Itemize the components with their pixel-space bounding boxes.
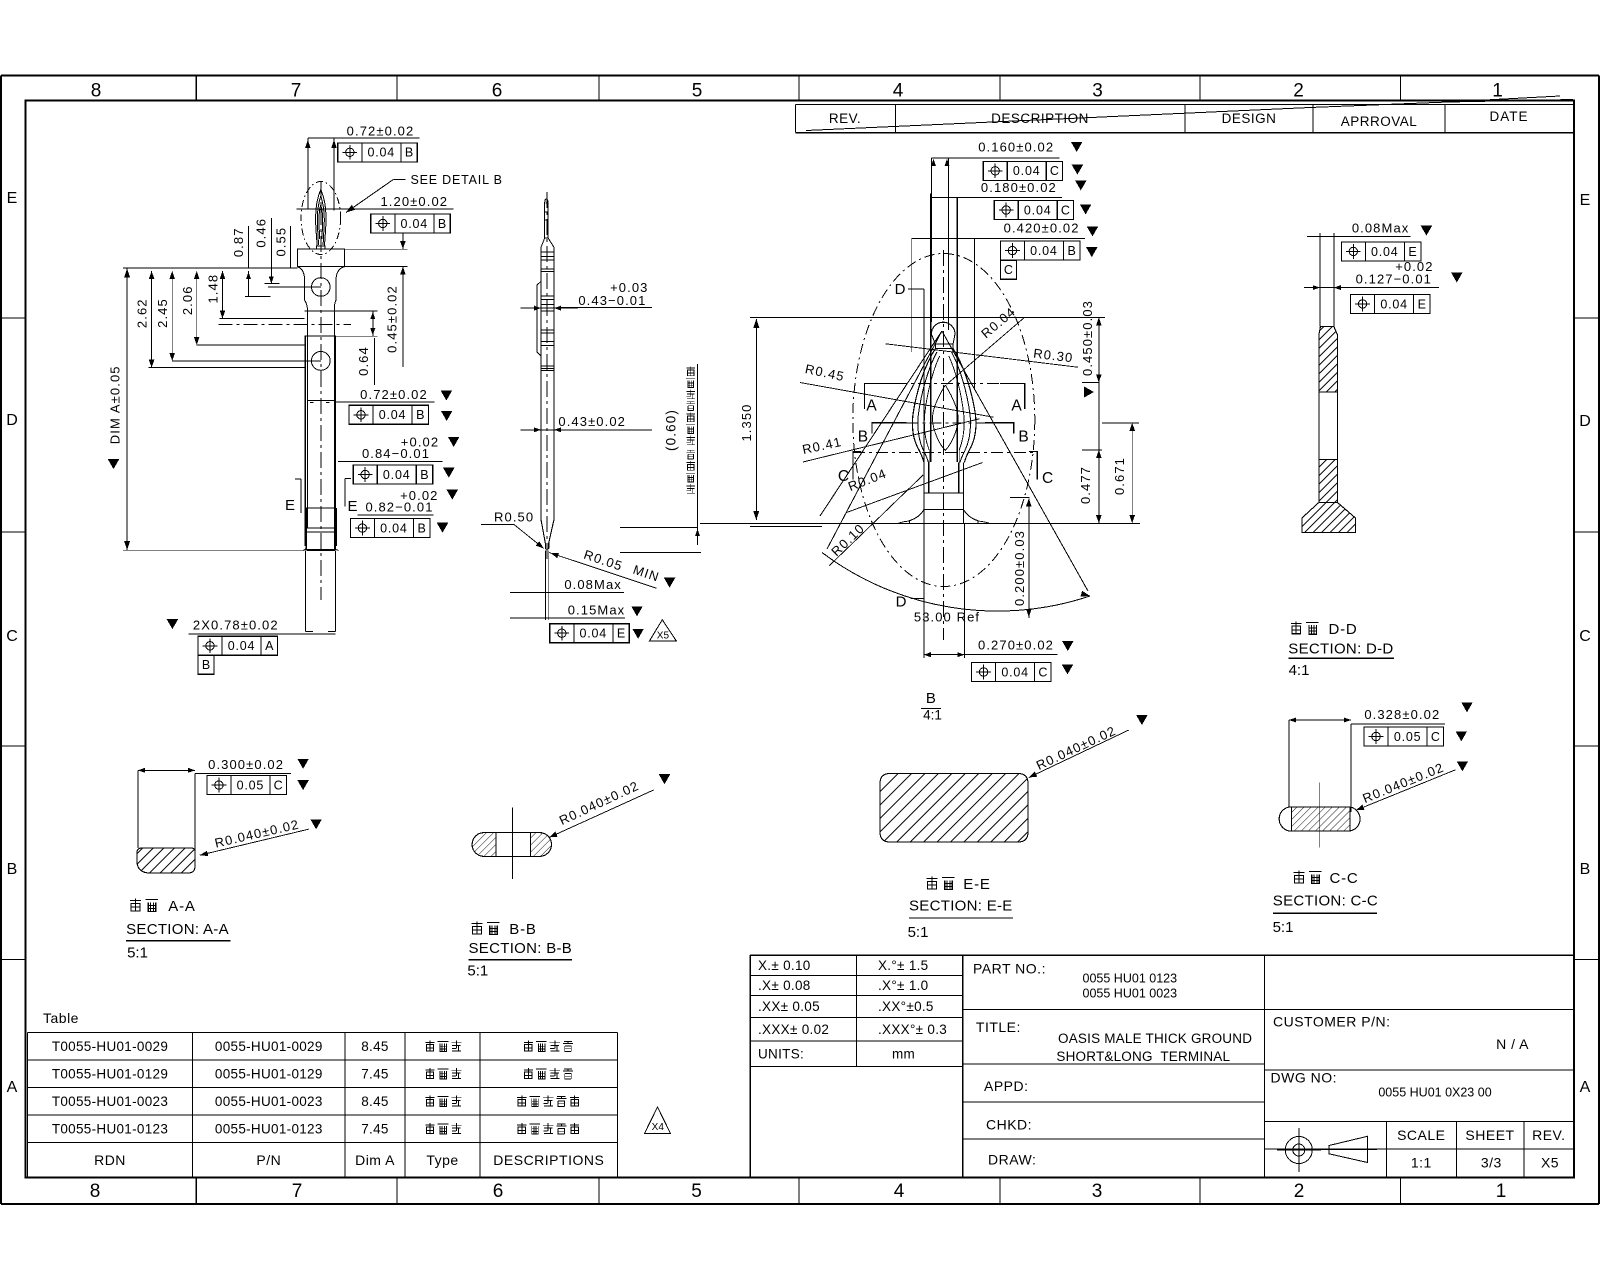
svg-text:7.45: 7.45 [361, 1121, 388, 1136]
svg-text:0.46: 0.46 [254, 218, 269, 248]
svg-text:SECTION: D-D: SECTION: D-D [1288, 641, 1393, 658]
side view: body [540, 248, 542, 520]
section E-E labels [927, 877, 938, 889]
svg-text:C: C [838, 468, 849, 485]
detail B heavy edge extension lines [931, 158, 933, 322]
svg-text:E: E [1418, 297, 1426, 311]
svg-text:2.62: 2.62 [135, 298, 150, 328]
svg-text:0.55: 0.55 [273, 227, 288, 257]
svg-text:0055 HU01 0023: 0055 HU01 0023 [1083, 987, 1178, 1001]
svg-text:X.°± 1.5: X.°± 1.5 [878, 958, 928, 973]
left dim horizontal extension lines [197, 344, 305, 346]
svg-text:TITLE:: TITLE: [976, 1019, 1021, 1035]
svg-text:C: C [1431, 730, 1440, 744]
side view: vertical centerline [546, 192, 548, 560]
svg-text:5:1: 5:1 [127, 944, 148, 961]
dwg no cell [1265, 1069, 1575, 1071]
svg-text:0.04: 0.04 [1013, 164, 1041, 178]
svg-text:D: D [6, 412, 18, 429]
svg-text:0.15Max: 0.15Max [568, 602, 626, 617]
svg-text:0.64: 0.64 [356, 346, 371, 376]
fcf 0.180 [994, 201, 1073, 220]
svg-text:0.127−0.01: 0.127−0.01 [1356, 271, 1432, 286]
svg-text:CHKD:: CHKD: [986, 1116, 1032, 1132]
section B-B cut line [907, 422, 986, 424]
svg-text:B-B: B-B [509, 921, 536, 938]
section E-E hatched shape [880, 774, 1028, 843]
zone column separators bottom band [195, 1178, 197, 1205]
leader R0.040±0.02 (C-C) [1356, 770, 1456, 810]
svg-text:APRROVAL: APRROVAL [1341, 114, 1418, 129]
svg-text:C: C [1050, 164, 1059, 178]
svg-text:B: B [1580, 861, 1591, 878]
svg-text:T0055-HU01-0023: T0055-HU01-0023 [52, 1094, 168, 1109]
(0.60) extension lines [620, 527, 698, 529]
svg-text:Dim A: Dim A [355, 1152, 395, 1168]
part no cell [963, 1009, 1265, 1011]
svg-text:.X°± 1.0: .X°± 1.0 [878, 978, 928, 993]
svg-text:0.05: 0.05 [1394, 730, 1422, 744]
svg-text:0055-HU01-0123: 0055-HU01-0123 [215, 1121, 323, 1136]
front view: lower block [305, 508, 307, 550]
svg-text:SECTION: E-E: SECTION: E-E [909, 897, 1013, 914]
svg-text:0.450±0.03: 0.450±0.03 [1080, 300, 1095, 376]
svg-text:0.04: 0.04 [1001, 665, 1029, 679]
svg-text:REV.: REV. [1532, 1127, 1565, 1143]
svg-text:C: C [1038, 665, 1047, 679]
dim 2X0.78±0.02 [167, 619, 179, 629]
svg-text:0.72±0.02: 0.72±0.02 [360, 387, 428, 402]
svg-text:P/N: P/N [256, 1152, 281, 1168]
strike line across strip [806, 96, 1560, 131]
detail B central lens [933, 386, 959, 451]
svg-text:0055-HU01-0129: 0055-HU01-0129 [215, 1066, 323, 1081]
detail B baseline [700, 522, 1140, 524]
front view: hole 1 [312, 278, 331, 297]
leader R0.040±0.02 (A-A) [200, 829, 309, 855]
front view: shaft inner edges (0.72 width) [307, 311, 309, 528]
svg-text:0.08Max: 0.08Max [1352, 221, 1410, 236]
svg-text:R0.50: R0.50 [494, 510, 534, 525]
svg-text:DESCRIPTIONS: DESCRIPTIONS [493, 1152, 604, 1168]
svg-text:0.43±0.02: 0.43±0.02 [558, 414, 626, 429]
svg-text:APPD:: APPD: [984, 1078, 1029, 1094]
svg-text:B: B [420, 468, 428, 482]
svg-text:0.04: 0.04 [379, 408, 407, 422]
svg-text:C: C [1004, 263, 1013, 277]
svg-text:E: E [285, 497, 295, 514]
svg-text:mm: mm [892, 1046, 915, 1061]
svg-text:E: E [1408, 245, 1416, 259]
svg-text:DWG NO:: DWG NO: [1271, 1070, 1338, 1086]
svg-text:2: 2 [1293, 81, 1304, 102]
tolerance table [750, 974, 963, 976]
svg-text:4:1: 4:1 [1289, 662, 1310, 679]
dim 0.270±0.02 [923, 523, 925, 658]
svg-text:0.82−0.01: 0.82−0.01 [365, 500, 433, 515]
section C-C cut line [853, 452, 1037, 454]
title block outline [750, 954, 1574, 956]
svg-text:A: A [1011, 397, 1022, 414]
fcf 0.84 [353, 465, 433, 484]
svg-text:0.04: 0.04 [368, 146, 396, 160]
svg-text:Table: Table [43, 1010, 79, 1026]
label R0.05 MIN [549, 553, 657, 589]
svg-text:C: C [1042, 470, 1053, 487]
svg-text:0055-HU01-0023: 0055-HU01-0023 [215, 1094, 323, 1109]
svg-text:T0055-HU01-0029: T0055-HU01-0029 [52, 1039, 168, 1054]
front view: horizontal centerline (dash) [219, 324, 351, 326]
svg-text:SECTION: A-A: SECTION: A-A [126, 921, 229, 938]
front view: taper to shaft [297, 267, 304, 278]
svg-text:A: A [265, 639, 274, 653]
fcf 1.20 [371, 214, 451, 233]
svg-text:0.04: 0.04 [401, 217, 429, 231]
svg-text:B: B [858, 428, 868, 445]
front view: shaft outer heavy edges (0.84 width) [304, 336, 306, 508]
svg-text:0.04: 0.04 [1030, 244, 1058, 258]
svg-text:5:1: 5:1 [467, 962, 488, 979]
svg-text:D: D [1579, 413, 1591, 430]
svg-text:0.160±0.02: 0.160±0.02 [978, 140, 1054, 155]
section A-A cut line [895, 383, 1000, 385]
svg-text:8: 8 [91, 81, 102, 102]
svg-text:5:1: 5:1 [908, 924, 929, 941]
dim 0.43 +0.03/-0.01 [520, 307, 578, 309]
detail B pin inner curves [918, 352, 937, 463]
front view: shoulder block [297, 249, 344, 266]
svg-text:5: 5 [691, 1181, 702, 1202]
svg-text:6: 6 [493, 1181, 504, 1202]
fan rays [827, 331, 942, 549]
svg-text:X5: X5 [1541, 1155, 1559, 1171]
fcf C-C [1364, 727, 1444, 746]
scale/sheet/rev table [1265, 1120, 1575, 1122]
section C-C shape [1279, 807, 1360, 831]
svg-text:C: C [6, 628, 18, 645]
leader R0.040±0.02 (E-E) [1029, 730, 1129, 778]
detail B dash-dot ellipse [853, 254, 1035, 587]
section D-D hatched body [1319, 326, 1338, 392]
fcf A-A [207, 776, 287, 795]
svg-text:.X± 0.08: .X± 0.08 [758, 978, 811, 993]
svg-text:A: A [866, 397, 877, 414]
fcf D-D top [1341, 242, 1421, 261]
front view: upper shaft outer edges [304, 278, 306, 301]
fcf 0.72 top [338, 143, 418, 162]
side view: body band lines [541, 251, 554, 253]
X4 flag triangle [645, 1107, 671, 1134]
fcf 0.72 lower [349, 405, 429, 424]
svg-text:OASIS MALE THICK GROUND: OASIS MALE THICK GROUND [1058, 1031, 1252, 1046]
fcf 0.420 with C below [1000, 241, 1080, 260]
svg-text:0.72±0.02: 0.72±0.02 [347, 123, 415, 138]
front view: tail legs [305, 550, 307, 631]
zone row separators left band [1, 317, 26, 319]
svg-text:0.04: 0.04 [380, 522, 408, 536]
svg-text:C-C: C-C [1329, 870, 1358, 887]
svg-text:SEE DETAIL B: SEE DETAIL B [411, 173, 503, 187]
svg-text:1.20±0.02: 1.20±0.02 [380, 194, 448, 209]
detail B legs [923, 463, 925, 494]
vertical CJK note column [687, 366, 695, 375]
svg-text:C: C [1579, 628, 1591, 645]
svg-text:4:1: 4:1 [923, 708, 942, 723]
svg-text:1.48: 1.48 [206, 274, 221, 304]
svg-text:E-E: E-E [963, 876, 990, 893]
svg-text:.XX°±0.5: .XX°±0.5 [878, 999, 934, 1014]
svg-text:D-D: D-D [1328, 621, 1357, 638]
svg-text:X5: X5 [657, 631, 670, 642]
customer p/n cell [1265, 1009, 1575, 1011]
svg-text:SCALE: SCALE [1397, 1127, 1445, 1143]
svg-text:SHORT&LONG TERMINAL: SHORT&LONG TERMINAL [1056, 1049, 1230, 1064]
svg-text:B: B [405, 146, 413, 160]
svg-text:3: 3 [1092, 1181, 1103, 1202]
side view: narrow tip [545, 199, 548, 238]
first angle projection symbol [1285, 1137, 1312, 1164]
fcf 2X0.78 with datum B [198, 636, 278, 655]
fan arc 53.00 Ref [822, 553, 1090, 612]
svg-text:REV.: REV. [829, 111, 861, 126]
svg-text:2X0.78±0.02: 2X0.78±0.02 [193, 617, 279, 632]
svg-text:SECTION: B-B: SECTION: B-B [469, 940, 573, 957]
svg-text:DRAW:: DRAW: [988, 1151, 1036, 1167]
svg-text:DATE: DATE [1489, 109, 1528, 124]
svg-text:X4: X4 [652, 1122, 665, 1133]
side view: left ledge [537, 282, 541, 356]
svg-text:8.45: 8.45 [361, 1094, 388, 1109]
svg-text:0055 HU01 0123: 0055 HU01 0123 [1083, 971, 1178, 985]
front view: pin tip flame [316, 190, 326, 247]
svg-text:A: A [1580, 1079, 1591, 1096]
svg-text:B: B [7, 861, 18, 878]
svg-text:5: 5 [692, 81, 703, 102]
svg-text:.XX± 0.05: .XX± 0.05 [758, 999, 820, 1014]
svg-text:B: B [438, 217, 446, 231]
section B-B shape [472, 833, 551, 857]
svg-text:RDN: RDN [94, 1152, 126, 1168]
svg-text:0055-HU01-0029: 0055-HU01-0029 [215, 1039, 323, 1054]
svg-text:7: 7 [291, 81, 302, 102]
detail B centerline [943, 250, 945, 640]
svg-text:4: 4 [893, 81, 904, 102]
svg-text:DESIGN: DESIGN [1222, 111, 1277, 126]
svg-text:0.04: 0.04 [1371, 245, 1399, 259]
side view: cone [541, 238, 554, 248]
fcf side view 0.04 E [550, 624, 630, 643]
svg-text:3/3: 3/3 [1481, 1155, 1502, 1171]
svg-text:E: E [1580, 192, 1591, 209]
svg-text:E: E [617, 627, 625, 641]
svg-text:7.45: 7.45 [361, 1066, 388, 1081]
svg-text:B: B [416, 408, 424, 422]
svg-text:0.300±0.02: 0.300±0.02 [208, 757, 284, 772]
section A-A labels [130, 899, 141, 911]
svg-text:.XXX± 0.02: .XXX± 0.02 [758, 1022, 829, 1037]
section D-D stem [1319, 233, 1321, 326]
svg-text:0055 HU01 0X23 00: 0055 HU01 0X23 00 [1378, 1086, 1491, 1100]
svg-text:.XXX°± 0.3: .XXX°± 0.3 [878, 1022, 947, 1037]
svg-text:0.43−0.01: 0.43−0.01 [578, 293, 646, 308]
side view: taper tip [541, 519, 554, 549]
svg-text:B: B [1067, 244, 1075, 258]
svg-text:0.05: 0.05 [237, 779, 265, 793]
svg-text:2.06: 2.06 [180, 285, 195, 315]
zone column separators top band [195, 76, 197, 101]
svg-text:X.± 0.10: X.± 0.10 [758, 958, 811, 973]
svg-text:0.328±0.02: 0.328±0.02 [1364, 707, 1440, 722]
svg-text:0.04: 0.04 [580, 627, 608, 641]
fcf 0.270 [972, 663, 1052, 682]
svg-text:SECTION: C-C: SECTION: C-C [1273, 892, 1378, 909]
svg-text:0.04: 0.04 [383, 468, 411, 482]
shoulder-bottom reference line [123, 267, 297, 269]
svg-text:1.350: 1.350 [739, 403, 754, 441]
svg-text:0.180±0.02: 0.180±0.02 [981, 180, 1057, 195]
svg-text:1:1: 1:1 [1411, 1155, 1432, 1171]
front view: flame base block [317, 246, 326, 249]
svg-text:2.45: 2.45 [155, 298, 170, 328]
svg-text:T0055-HU01-0129: T0055-HU01-0129 [52, 1066, 168, 1081]
svg-text:0.270±0.02: 0.270±0.02 [978, 638, 1054, 653]
svg-text:B: B [417, 522, 425, 536]
svg-text:PART NO.:: PART NO.: [973, 961, 1046, 977]
svg-text:A: A [7, 1079, 18, 1096]
fcf 0.160 [983, 161, 1062, 180]
svg-text:4: 4 [894, 1181, 905, 1202]
section B-B labels [472, 922, 483, 934]
svg-text:B: B [202, 658, 210, 672]
revision strip REV/DESCRIPTION/DESIGN/APPROVAL/DATE [795, 104, 1574, 106]
svg-text:1: 1 [1492, 81, 1503, 102]
svg-text:N / A: N / A [1496, 1036, 1529, 1052]
svg-text:8: 8 [90, 1181, 101, 1202]
svg-text:0.84−0.01: 0.84−0.01 [362, 446, 430, 461]
side view: thin tail wire [544, 551, 546, 621]
svg-text:5:1: 5:1 [1273, 919, 1294, 936]
svg-text:DIM A±0.05: DIM A±0.05 [108, 365, 123, 444]
section D-D labels [1291, 621, 1302, 633]
svg-text:0.04: 0.04 [1380, 297, 1408, 311]
front view: cross feature lines [305, 310, 337, 312]
zone row separators right band [1574, 317, 1599, 319]
drawing border frame [1, 75, 1599, 77]
section A-A hatched shape [137, 848, 195, 873]
dim 0.45±0.02 shoulder [345, 248, 408, 250]
svg-text:0.420±0.02: 0.420±0.02 [1004, 220, 1080, 235]
svg-text:6: 6 [492, 81, 503, 102]
X5 flag triangle [649, 620, 676, 641]
svg-text:E: E [7, 190, 18, 207]
svg-text:T0055-HU01-0123: T0055-HU01-0123 [52, 1121, 168, 1136]
svg-text:8.45: 8.45 [361, 1039, 388, 1054]
svg-text:0.04: 0.04 [1024, 203, 1052, 217]
svg-text:3: 3 [1092, 81, 1103, 102]
section B-B centerline [511, 808, 513, 879]
svg-text:0.08Max: 0.08Max [564, 577, 622, 592]
svg-text:0.477: 0.477 [1078, 466, 1093, 504]
svg-text:B: B [926, 690, 936, 707]
svg-text:0.87: 0.87 [231, 227, 246, 257]
front view: hole 2 [311, 352, 330, 371]
detail B foot [924, 492, 963, 494]
front view: vertical centerline [320, 182, 322, 600]
svg-text:0.04: 0.04 [228, 639, 256, 653]
svg-text:A-A: A-A [168, 898, 195, 915]
svg-text:2: 2 [1294, 1181, 1305, 1202]
svg-text:Type: Type [426, 1152, 458, 1168]
leader R0.040±0.02 (B-B) [549, 790, 654, 838]
dim 0.43±0.02 [520, 429, 560, 431]
svg-text:E: E [347, 498, 357, 515]
svg-text:B: B [1018, 428, 1028, 445]
detail circle (dash-dot ellipse) around tip [301, 182, 341, 255]
fcf 0.82 [350, 519, 430, 538]
section C-C labels [1294, 871, 1305, 883]
svg-text:C: C [274, 779, 283, 793]
svg-text:UNITS:: UNITS: [758, 1046, 804, 1061]
svg-text:0.200±0.03: 0.200±0.03 [1012, 530, 1027, 606]
svg-text:0.45±0.02: 0.45±0.02 [385, 285, 400, 353]
svg-text:CUSTOMER P/N:: CUSTOMER P/N: [1273, 1014, 1390, 1030]
detail B pin bulge outline [912, 349, 976, 463]
svg-text:SHEET: SHEET [1465, 1127, 1514, 1143]
svg-text:C: C [1061, 203, 1070, 217]
svg-text:1: 1 [1496, 1181, 1507, 1202]
svg-text:(0.60): (0.60) [664, 409, 679, 451]
svg-text:7: 7 [292, 1181, 303, 1202]
DIM A bottom extension [123, 549, 305, 551]
fcf D-D second [1351, 294, 1431, 313]
svg-text:0.671: 0.671 [1112, 457, 1127, 495]
detail B pin dome [931, 322, 955, 334]
svg-text:D: D [895, 281, 906, 298]
section C-C centerline [1319, 783, 1321, 848]
